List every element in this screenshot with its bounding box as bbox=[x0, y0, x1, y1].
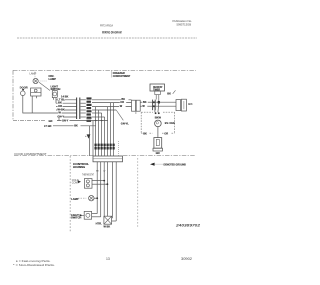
cold control CC1 bbox=[84, 179, 92, 189]
fan motor terminals bbox=[155, 112, 157, 114]
food switch wires bbox=[92, 213, 98, 215]
svg-text:BK: BK bbox=[143, 131, 147, 135]
wire row4 bbox=[56, 109, 77, 111]
fan box top edge bbox=[141, 111, 153, 113]
wire socket drop b bbox=[36, 96, 38, 98]
wire door switch drop bbox=[23, 96, 57, 114]
fan box bottom edge bbox=[141, 132, 142, 134]
wire row B to heater bbox=[155, 105, 176, 107]
fan box left edge bbox=[140, 112, 142, 133]
leader diagonal bbox=[39, 82, 50, 90]
wire right row C bbox=[92, 109, 116, 111]
svg-text:OR: OR bbox=[58, 104, 62, 108]
svg-text:COMPARTMENT: COMPARTMENT bbox=[113, 74, 131, 78]
svg-text:BK: BK bbox=[74, 125, 78, 128]
wire color labels left bundle bbox=[57, 97, 65, 118]
junction dots on bars bbox=[153, 101, 155, 103]
evap fan motor M1 bbox=[155, 120, 162, 127]
svg-text:FRT2-IP5GA: FRT2-IP5GA bbox=[100, 23, 113, 27]
wire row3 bbox=[56, 106, 77, 108]
freezer lamp stub from boundary bbox=[34, 70, 36, 78]
wire code labels above board bbox=[95, 144, 115, 150]
food lamp L2 bbox=[89, 196, 94, 201]
svg-text:BK: BK bbox=[167, 91, 171, 95]
elbow to x-box right upper bbox=[111, 217, 114, 219]
food compartment boundary right segment bbox=[123, 155, 195, 157]
svg-text:LAMP: LAMP bbox=[49, 77, 57, 81]
wire into fan box b bbox=[157, 104, 160, 113]
timer terminal block bbox=[155, 91, 161, 95]
svg-text:* = Non-Illustrated Parts.: * = Non-Illustrated Parts. bbox=[13, 263, 55, 267]
wire row8 bbox=[44, 124, 96, 128]
labels on right rows bbox=[119, 97, 128, 108]
svg-text:GN: GN bbox=[156, 151, 160, 155]
svg-text:THERMOSTAT: THERMOSTAT bbox=[82, 173, 94, 176]
svg-text:GN-Y: GN-Y bbox=[62, 119, 69, 122]
wire right row B bbox=[92, 106, 132, 108]
svg-text:OR: OR bbox=[164, 131, 168, 135]
connector bars CN3 bbox=[152, 100, 154, 111]
svg-text:HOUSING: HOUSING bbox=[73, 166, 85, 169]
freezer compartment boundary top bbox=[13, 69, 196, 71]
svg-text:GN-YL: GN-YL bbox=[121, 121, 129, 125]
defrost timer box bbox=[150, 84, 165, 91]
leader diagonal to ground label bbox=[116, 110, 123, 120]
stub wire to boundary bbox=[118, 141, 120, 156]
fan box right edge bbox=[174, 112, 176, 133]
wire switch drop b bbox=[55, 98, 57, 104]
svg-text:5995T13GB: 5995T13GB bbox=[177, 23, 192, 27]
power plug P1 bbox=[153, 138, 163, 151]
connector bottom stub bbox=[135, 111, 137, 114]
svg-text:FOOD COMPARTMENT: FOOD COMPARTMENT bbox=[15, 152, 47, 156]
svg-text:LAMP: LAMP bbox=[71, 197, 79, 201]
wires from CN2 to bars bbox=[140, 101, 152, 103]
svg-text:30902: 30902 bbox=[181, 257, 192, 261]
food compartment boundary right vertical bbox=[137, 158, 139, 228]
svg-text:LAMP: LAMP bbox=[30, 73, 37, 76]
timer pin wires bbox=[155, 95, 157, 100]
heater box with X bbox=[104, 216, 112, 224]
elbow row6 to vertical bbox=[92, 116, 105, 118]
cold control wires bbox=[92, 180, 104, 182]
vertical wire cluster bbox=[96, 103, 114, 156]
svg-text:BK: BK bbox=[143, 101, 147, 104]
board bottom vertical wires bbox=[97, 162, 116, 221]
legend arrow denotes ground bbox=[150, 163, 186, 167]
connector pair mid CN2 bbox=[132, 100, 136, 111]
wire row6 bbox=[59, 116, 77, 118]
food lamp wire bbox=[94, 197, 97, 199]
wire row2 bbox=[56, 102, 77, 104]
food compartment boundary left segment bbox=[14, 155, 93, 157]
wire into fan box a bbox=[154, 106, 156, 112]
wire row8 drop to board bbox=[89, 126, 91, 156]
fan stem wire bbox=[157, 127, 159, 138]
svg-text:OR: OR bbox=[120, 101, 124, 104]
freezer light switch S1 bbox=[52, 91, 57, 98]
diagonal tick bbox=[173, 90, 176, 94]
freezer compartment boundary left bbox=[12, 70, 14, 120]
freezer compartment label bbox=[112, 70, 131, 78]
elbow row5 to vertical bbox=[92, 112, 102, 114]
wire socket drop a bbox=[31, 96, 33, 113]
svg-text:HTR.: HTR. bbox=[96, 221, 103, 225]
wire right row A bbox=[92, 102, 132, 104]
wire switch drop a bbox=[53, 98, 55, 100]
door switch arrow bbox=[22, 89, 25, 91]
connector CN1 bars bbox=[76, 98, 78, 120]
defrost heater connector bbox=[176, 100, 181, 111]
wire row7 bbox=[49, 118, 108, 123]
svg-text:LT BL: LT BL bbox=[57, 97, 65, 101]
lamp socket receptacle bbox=[31, 88, 41, 96]
elbow to x-box right lower bbox=[112, 220, 117, 222]
wire row5 bbox=[57, 112, 77, 114]
svg-text:BKW: BKW bbox=[155, 116, 162, 120]
svg-text:GN-Y: GN-Y bbox=[57, 115, 64, 119]
junction dot bbox=[158, 101, 161, 104]
wire labels below board bbox=[96, 171, 106, 173]
wire right row top bbox=[92, 99, 132, 101]
svg-text:DENOTES GROUND: DENOTES GROUND bbox=[164, 163, 187, 167]
svg-text:13: 13 bbox=[106, 257, 110, 261]
svg-text:FREEZER: FREEZER bbox=[113, 71, 125, 75]
labels right of CN2 bbox=[142, 100, 148, 108]
svg-text:240389702: 240389702 bbox=[175, 222, 201, 227]
food switch arrow bbox=[80, 214, 83, 217]
title rule bbox=[17, 37, 197, 39]
food compartment boundary left vertical bbox=[69, 156, 71, 232]
leader dashed to lamp label bbox=[38, 80, 47, 82]
svg-text:EV. FAN: EV. FAN bbox=[165, 121, 175, 125]
cold control arrow bbox=[78, 180, 81, 183]
door switch circle bbox=[21, 91, 26, 96]
svg-text:W: W bbox=[58, 111, 61, 115]
row6 stub down bbox=[58, 117, 60, 121]
ground symbol on wire bbox=[85, 134, 90, 138]
food light switch S2 bbox=[84, 211, 91, 219]
wire to heater connector bbox=[155, 101, 176, 103]
svg-text:W BK: W BK bbox=[104, 226, 111, 229]
freezer lamp L1 bbox=[33, 78, 38, 83]
food lamp leader bbox=[78, 197, 86, 199]
wire code label column bbox=[86, 97, 93, 122]
svg-text:WIRING DIAGRAM: WIRING DIAGRAM bbox=[102, 31, 122, 35]
wire stubs right of connector bbox=[81, 100, 93, 117]
svg-text:GN: GN bbox=[49, 120, 53, 123]
terminal board TB1 bbox=[93, 156, 123, 162]
wire row7 drop to board bbox=[92, 121, 94, 157]
svg-text:BK: BK bbox=[58, 101, 62, 105]
freezer compartment boundary bottom-left bbox=[13, 120, 46, 122]
svg-text:LT GN: LT GN bbox=[44, 125, 52, 128]
wire row1 bbox=[56, 99, 77, 101]
